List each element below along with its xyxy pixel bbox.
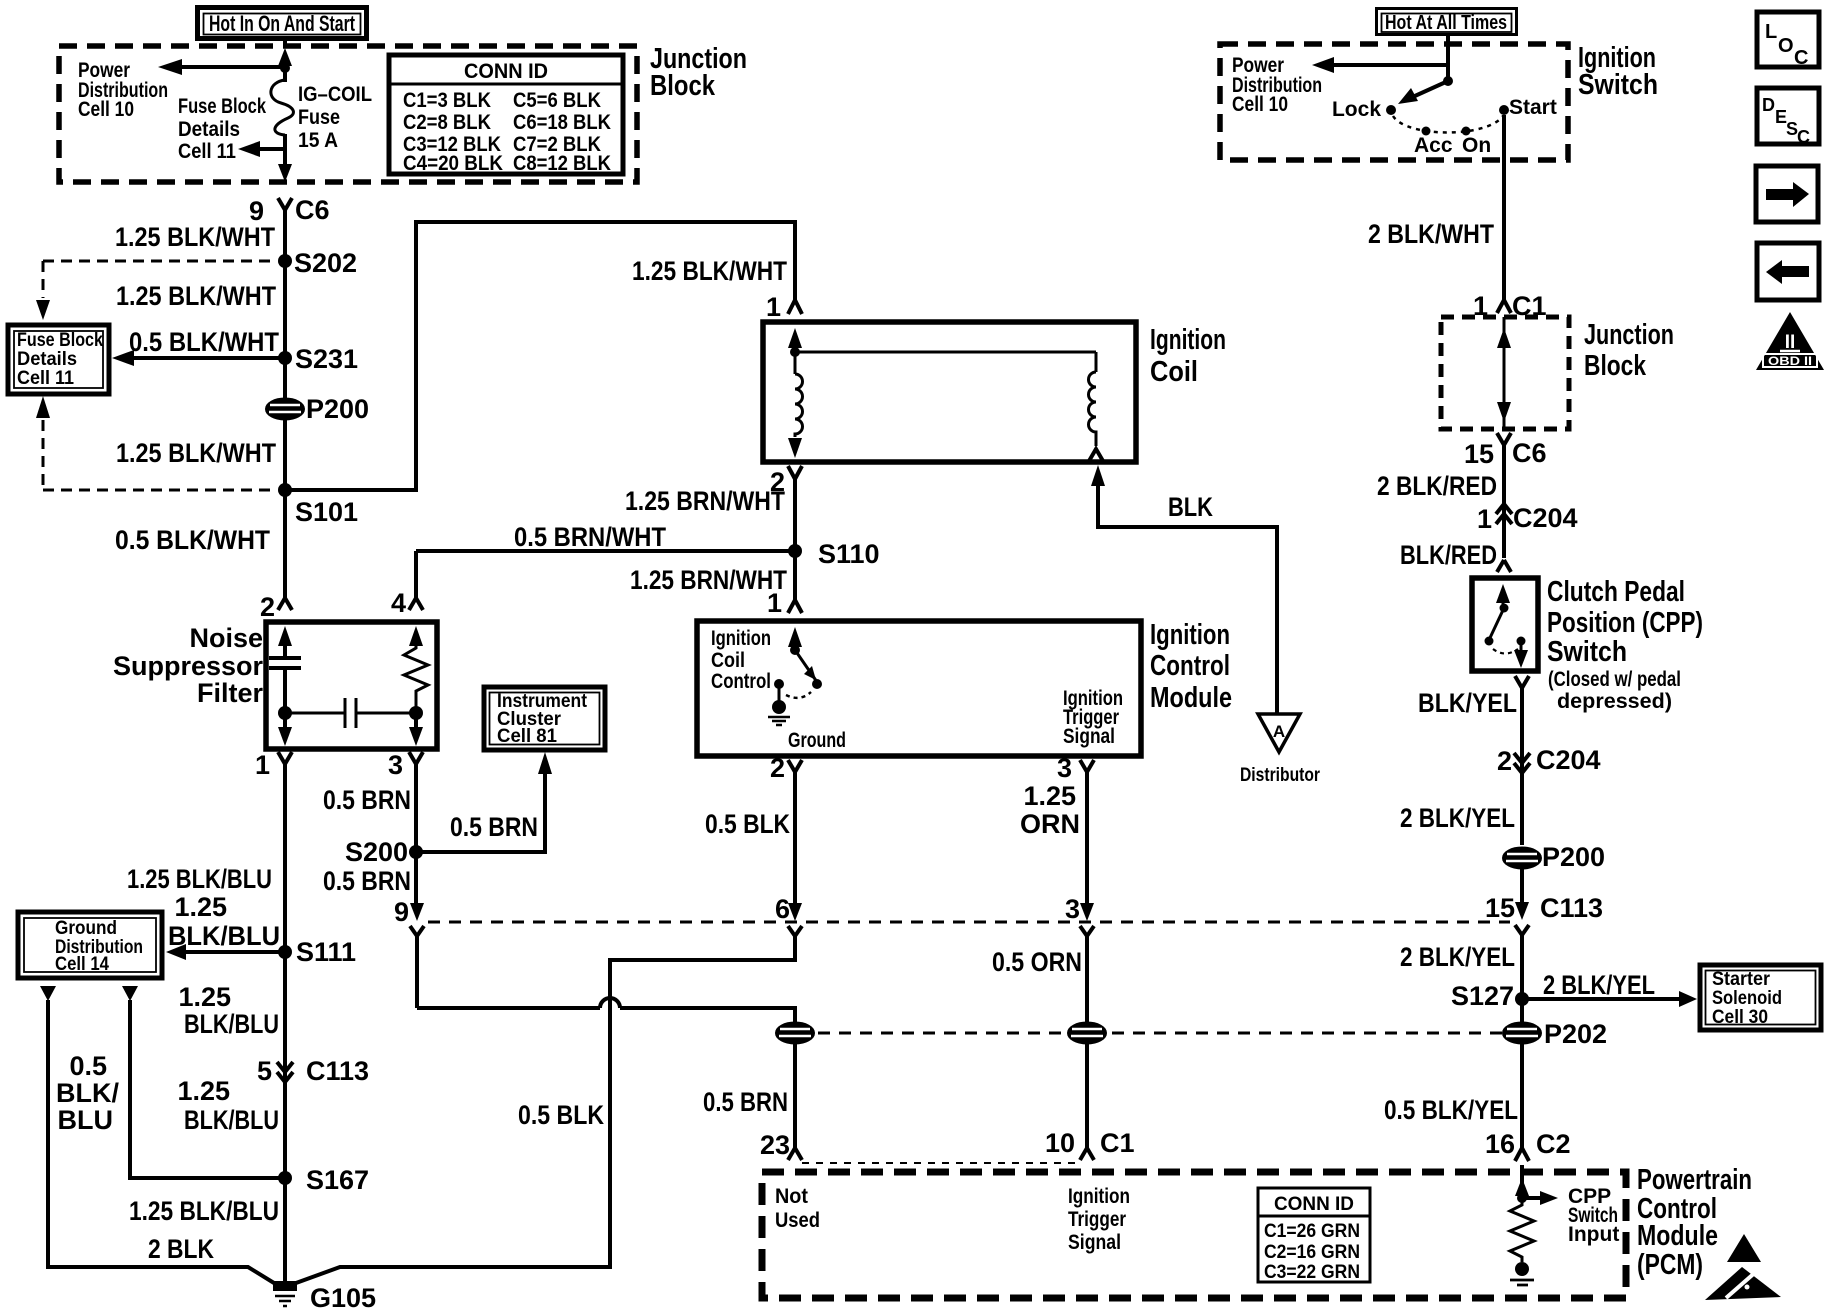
svg-text:C: C: [1797, 127, 1810, 147]
svg-text:D: D: [1762, 95, 1775, 115]
svg-text:15: 15: [1485, 893, 1515, 923]
svg-text:BLK/RED: BLK/RED: [1400, 540, 1497, 570]
svg-text:Module: Module: [1637, 1220, 1718, 1252]
svg-text:0.5: 0.5: [69, 1051, 107, 1081]
svg-text:Fuse Block: Fuse Block: [178, 95, 266, 118]
svg-text:A: A: [1273, 722, 1285, 741]
svg-text:C4=20 BLK: C4=20 BLK: [403, 151, 503, 175]
svg-text:Powertrain: Powertrain: [1637, 1164, 1752, 1196]
svg-text:Not: Not: [775, 1185, 808, 1208]
svg-text:Cell 11: Cell 11: [17, 367, 74, 389]
svg-text:Details: Details: [178, 118, 240, 141]
svg-text:C2: C2: [1536, 1129, 1571, 1159]
svg-text:C3=22 GRN: C3=22 GRN: [1264, 1262, 1360, 1283]
svg-text:2: 2: [260, 592, 275, 622]
svg-text:Coil: Coil: [1150, 356, 1198, 388]
svg-text:0.5 BLK: 0.5 BLK: [705, 809, 790, 839]
svg-text:0.5 BLK/YEL: 0.5 BLK/YEL: [1384, 1095, 1518, 1125]
svg-text:2 BLK/RED: 2 BLK/RED: [1377, 471, 1497, 501]
svg-text:S111: S111: [296, 937, 356, 967]
svg-text:0.5 BRN: 0.5 BRN: [450, 812, 538, 842]
svg-text:OBD II: OBD II: [1768, 356, 1812, 368]
svg-text:Ignition: Ignition: [1150, 619, 1230, 651]
svg-text:2: 2: [770, 753, 785, 783]
svg-text:1.25 BLK/WHT: 1.25 BLK/WHT: [632, 256, 787, 286]
svg-text:Module: Module: [1150, 682, 1232, 714]
svg-text:2 BLK/YEL: 2 BLK/YEL: [1543, 970, 1655, 1000]
svg-text:C8=12 BLK: C8=12 BLK: [513, 151, 611, 175]
svg-text:0.5 BLK/WHT: 0.5 BLK/WHT: [115, 525, 270, 555]
svg-text:Block: Block: [650, 70, 716, 102]
svg-text:S202: S202: [294, 248, 357, 278]
svg-text:C204: C204: [1513, 503, 1578, 533]
svg-text:ORN: ORN: [1020, 809, 1080, 839]
svg-text:C113: C113: [1540, 893, 1603, 923]
svg-text:C1=26 GRN: C1=26 GRN: [1264, 1221, 1360, 1242]
svg-text:S200: S200: [345, 837, 408, 867]
svg-text:1.25 BRN/WHT: 1.25 BRN/WHT: [625, 486, 785, 516]
svg-text:9: 9: [394, 897, 409, 927]
svg-text:CONN ID: CONN ID: [464, 60, 548, 83]
svg-text:Cell 81: Cell 81: [497, 725, 557, 747]
svg-text:2 BLK/YEL: 2 BLK/YEL: [1400, 803, 1515, 833]
svg-text:10: 10: [1045, 1128, 1075, 1158]
svg-text:S101: S101: [295, 497, 358, 527]
svg-text:Ignition: Ignition: [1068, 1185, 1130, 1208]
svg-text:On: On: [1462, 134, 1491, 157]
svg-text:C1: C1: [1100, 1128, 1135, 1158]
svg-text:Control: Control: [1150, 650, 1230, 682]
svg-text:C: C: [1794, 47, 1808, 69]
svg-text:15 A: 15 A: [298, 129, 338, 152]
svg-text:3: 3: [1057, 753, 1072, 783]
svg-text:Signal: Signal: [1068, 1231, 1121, 1254]
svg-text:1: 1: [1477, 504, 1492, 534]
svg-text:(Closed w/ pedal: (Closed w/ pedal: [1548, 668, 1681, 691]
svg-text:0.5 BRN: 0.5 BRN: [323, 866, 411, 896]
svg-text:Filter: Filter: [197, 678, 264, 708]
svg-text:P200: P200: [1542, 842, 1605, 872]
svg-text:Noise: Noise: [189, 623, 263, 653]
svg-text:Fuse: Fuse: [298, 106, 340, 129]
svg-text:BLK/BLU: BLK/BLU: [168, 921, 280, 951]
svg-text:Start: Start: [1509, 96, 1557, 119]
svg-text:0.5 BLK/WHT: 0.5 BLK/WHT: [129, 327, 279, 357]
svg-text:0.5 BRN/WHT: 0.5 BRN/WHT: [514, 522, 666, 552]
svg-text:S127: S127: [1451, 981, 1514, 1011]
svg-text:Junction: Junction: [1584, 319, 1674, 351]
svg-text:0.5 BRN: 0.5 BRN: [323, 785, 411, 815]
svg-text:1: 1: [766, 292, 781, 322]
svg-text:Hot At All Times: Hot At All Times: [1385, 12, 1507, 34]
svg-text:BLK/BLU: BLK/BLU: [184, 1009, 279, 1039]
svg-text:C2=16 GRN: C2=16 GRN: [1264, 1242, 1360, 1263]
svg-text:Input: Input: [1568, 1223, 1619, 1246]
svg-text:S231: S231: [295, 344, 358, 374]
svg-text:1: 1: [255, 750, 270, 780]
svg-text:C1=3 BLK: C1=3 BLK: [403, 88, 491, 112]
svg-text:L: L: [1765, 21, 1777, 43]
svg-text:BLK: BLK: [1168, 492, 1213, 522]
svg-text:depressed): depressed): [1557, 690, 1672, 713]
svg-text:Hot In On And Start: Hot In On And Start: [209, 11, 355, 36]
svg-text:Acc: Acc: [1414, 134, 1453, 157]
svg-text:BLK/BLU: BLK/BLU: [184, 1105, 279, 1135]
svg-text:3: 3: [388, 750, 403, 780]
svg-text:C5=6 BLK: C5=6 BLK: [513, 88, 601, 112]
svg-text:C6=18 BLK: C6=18 BLK: [513, 110, 611, 134]
svg-text:Ignition: Ignition: [711, 627, 771, 650]
svg-text:23: 23: [760, 1130, 790, 1160]
svg-text:1.25: 1.25: [177, 1076, 230, 1106]
svg-text:1.25: 1.25: [174, 892, 227, 922]
svg-text:Position (CPP): Position (CPP): [1547, 607, 1703, 639]
svg-text:Control: Control: [711, 670, 771, 693]
svg-text:0.5 BLK: 0.5 BLK: [518, 1100, 604, 1130]
svg-text:Switch: Switch: [1578, 69, 1658, 101]
svg-text:P200: P200: [306, 394, 369, 424]
svg-text:1.25: 1.25: [178, 982, 231, 1012]
svg-text:0.5 BRN: 0.5 BRN: [703, 1087, 788, 1117]
svg-text:1: 1: [767, 588, 782, 618]
svg-text:Cell 14: Cell 14: [55, 953, 109, 975]
svg-text:0.5 ORN: 0.5 ORN: [992, 947, 1082, 977]
svg-text:Cell 10: Cell 10: [1232, 93, 1288, 116]
svg-text:Distributor: Distributor: [1240, 764, 1320, 786]
svg-text:3: 3: [1065, 894, 1080, 924]
svg-text:Trigger: Trigger: [1068, 1208, 1126, 1231]
svg-text:2: 2: [1497, 746, 1512, 776]
svg-text:C2=8 BLK: C2=8 BLK: [403, 110, 491, 134]
svg-text:Switch: Switch: [1547, 636, 1627, 668]
svg-text:Coil: Coil: [711, 649, 745, 672]
svg-text:CONN ID: CONN ID: [1274, 1194, 1354, 1215]
svg-text:6: 6: [775, 894, 790, 924]
svg-text:2 BLK/YEL: 2 BLK/YEL: [1400, 942, 1515, 972]
svg-text:Lock: Lock: [1332, 98, 1381, 121]
svg-text:Suppressor: Suppressor: [113, 651, 264, 681]
svg-text:Ignition: Ignition: [1150, 324, 1226, 356]
svg-text:BLK/YEL: BLK/YEL: [1418, 688, 1517, 718]
svg-text:BLU: BLU: [58, 1105, 114, 1135]
svg-text:5: 5: [257, 1056, 272, 1086]
svg-text:15: 15: [1464, 439, 1494, 469]
svg-text:1.25 BLK/WHT: 1.25 BLK/WHT: [116, 438, 276, 468]
svg-text:C113: C113: [306, 1056, 369, 1086]
svg-text:2 BLK: 2 BLK: [148, 1234, 214, 1264]
svg-text:Clutch Pedal: Clutch Pedal: [1547, 576, 1685, 608]
svg-text:1.25 BLK/WHT: 1.25 BLK/WHT: [116, 281, 276, 311]
svg-text:(PCM): (PCM): [1637, 1249, 1703, 1281]
svg-text:16: 16: [1485, 1129, 1515, 1159]
svg-text:C204: C204: [1536, 745, 1601, 775]
svg-text:1.25: 1.25: [1023, 781, 1076, 811]
svg-text:S167: S167: [306, 1165, 369, 1195]
svg-text:S110: S110: [818, 539, 880, 569]
svg-text:C6: C6: [295, 195, 330, 225]
svg-text:Cell 11: Cell 11: [178, 140, 236, 163]
svg-text:4: 4: [391, 588, 406, 618]
svg-text:1.25 BLK/BLU: 1.25 BLK/BLU: [127, 864, 272, 894]
svg-text:Signal: Signal: [1063, 725, 1115, 748]
svg-text:Cell 30: Cell 30: [1712, 1006, 1768, 1028]
svg-text:P202: P202: [1544, 1019, 1607, 1049]
svg-text:Used: Used: [775, 1209, 820, 1232]
svg-text:1.25 BRN/WHT: 1.25 BRN/WHT: [630, 565, 787, 595]
svg-text:1.25 BLK/WHT: 1.25 BLK/WHT: [115, 222, 275, 252]
svg-text:C6: C6: [1512, 438, 1547, 468]
svg-text:BLK/: BLK/: [56, 1078, 119, 1108]
svg-text:1.25 BLK/BLU: 1.25 BLK/BLU: [129, 1196, 279, 1226]
svg-text:G105: G105: [310, 1283, 376, 1312]
svg-text:Cell 10: Cell 10: [78, 98, 134, 121]
svg-text:IG–COIL: IG–COIL: [298, 83, 372, 106]
svg-text:Block: Block: [1584, 350, 1647, 382]
svg-text:Ground: Ground: [788, 729, 846, 752]
svg-text:2 BLK/WHT: 2 BLK/WHT: [1368, 219, 1494, 249]
svg-text:O: O: [1778, 35, 1794, 57]
